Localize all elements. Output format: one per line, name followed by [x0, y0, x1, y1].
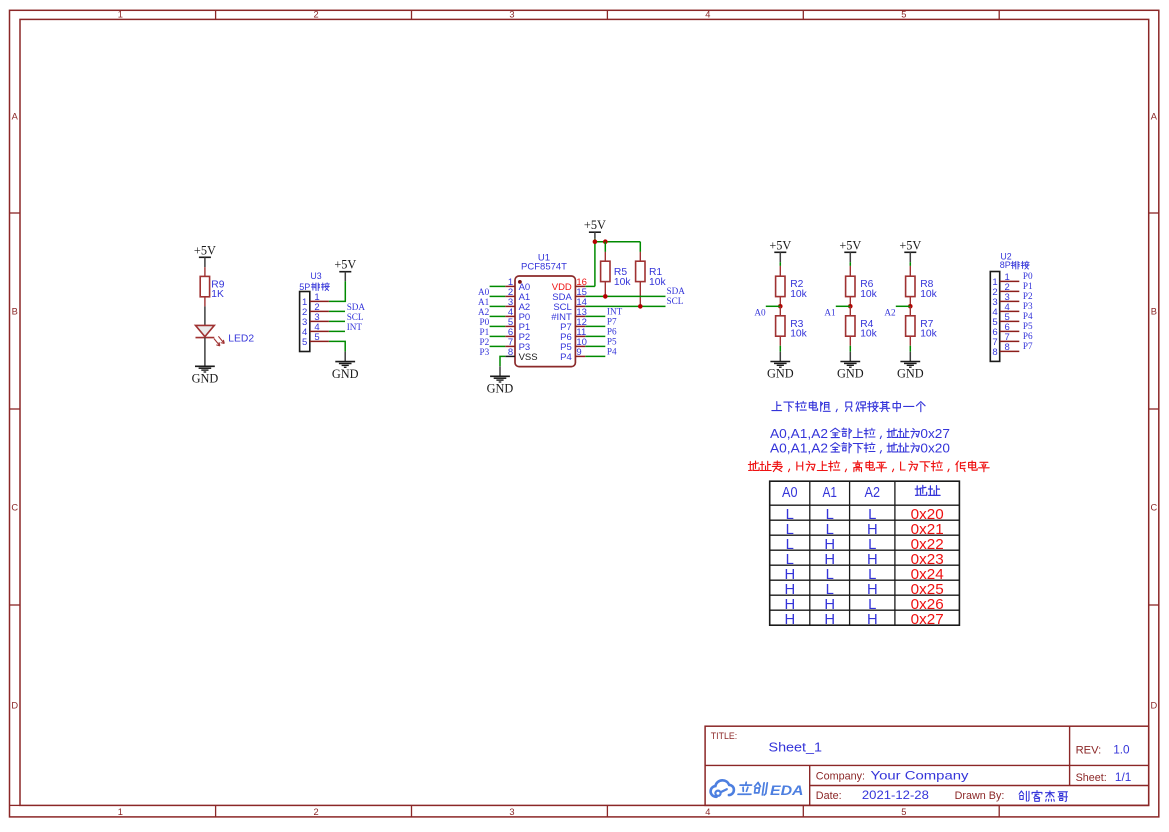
wire U1 pin 11: [585, 335, 605, 337]
wire node A0 to R3: [779, 306, 781, 316]
svg-text:P4: P4: [1023, 311, 1033, 321]
U1 pin 11 (P6): [560, 327, 586, 343]
svg-text:A2: A2: [884, 307, 896, 317]
svg-text:A0: A0: [754, 307, 766, 317]
wire node A1 stub: [836, 305, 851, 307]
wire +5V to R6: [849, 252, 851, 276]
svg-text:L: L: [868, 567, 876, 583]
svg-text:A1: A1: [478, 297, 490, 307]
svg-text:A0: A0: [782, 485, 798, 501]
svg-text:5: 5: [314, 332, 319, 343]
svg-text:3: 3: [509, 10, 514, 20]
ground (A1): [837, 362, 864, 381]
svg-text:8: 8: [508, 347, 513, 358]
svg-text:0x20: 0x20: [920, 441, 950, 455]
resistor R6: [846, 276, 878, 300]
svg-text:H: H: [795, 460, 804, 474]
U2 pin 3: [992, 292, 1019, 308]
svg-text:P2: P2: [479, 337, 489, 347]
svg-text:L: L: [786, 522, 794, 538]
svg-text:9: 9: [576, 347, 581, 358]
svg-text:L: L: [826, 567, 834, 583]
svg-text:H: H: [784, 612, 795, 628]
U1 pin 1 (A0): [505, 277, 530, 293]
connector U2 8P: [990, 252, 1011, 362]
svg-text:H: H: [824, 597, 835, 613]
U2 pin 8: [992, 342, 1019, 358]
wire node A2 to R7: [909, 306, 911, 316]
svg-text:2021-12-28: 2021-12-28: [862, 788, 929, 802]
svg-text:1K: 1K: [211, 289, 224, 300]
svg-text:1/1: 1/1: [1115, 770, 1131, 784]
wire U3 pin5 to GND: [329, 341, 345, 361]
wire R7 to GND: [909, 336, 911, 361]
U1 pin 3 (A2): [505, 297, 530, 313]
svg-text:H: H: [784, 597, 795, 613]
svg-text:P3: P3: [1023, 301, 1033, 311]
svg-text:+5V: +5V: [584, 218, 606, 232]
resistor R8: [906, 276, 938, 300]
wire +5V to R2: [779, 252, 781, 276]
svg-text:U3: U3: [310, 271, 321, 281]
wire R3 to GND: [779, 336, 781, 361]
svg-text:SDA: SDA: [667, 286, 686, 296]
resistor R3: [776, 316, 808, 340]
svg-text:4: 4: [705, 10, 710, 20]
op IC U1 refdes: [521, 253, 567, 273]
wire node A2 stub: [896, 305, 911, 307]
svg-text:10k: 10k: [860, 289, 877, 300]
wire U1 pin 5: [490, 325, 506, 327]
svg-text:LED2: LED2: [228, 334, 254, 345]
svg-text:0x25: 0x25: [911, 582, 944, 598]
svg-text:GND: GND: [332, 367, 359, 381]
svg-text:C: C: [11, 502, 18, 512]
svg-text:A: A: [1151, 112, 1158, 122]
resistor R2: [776, 276, 808, 300]
svg-text:L: L: [826, 582, 834, 598]
U1 pin 6 (P2): [505, 327, 530, 343]
svg-text:L: L: [786, 552, 794, 568]
wire U1 pin 2: [490, 295, 506, 297]
U3 pin 4: [302, 322, 329, 338]
svg-text:0x20: 0x20: [911, 507, 944, 523]
svg-text:P5: P5: [1023, 321, 1033, 331]
U2 refdes 8P排接: [1000, 260, 1029, 270]
ground (U3): [332, 362, 359, 381]
svg-text:H: H: [824, 612, 835, 628]
U2 pin 6: [992, 322, 1019, 338]
U1 pin 14 (SCL): [553, 297, 587, 313]
wire R6 to node A1: [849, 297, 851, 307]
svg-text:5: 5: [302, 337, 307, 348]
svg-text:SCL: SCL: [667, 296, 684, 306]
wire U3 SCL: [329, 320, 345, 322]
table row 0x20: [786, 507, 944, 523]
table row 0x21: [786, 522, 944, 538]
drawn by value 创客杰哥: [1019, 791, 1067, 802]
svg-text:A2: A2: [865, 485, 881, 501]
svg-text:0x26: 0x26: [911, 597, 944, 613]
svg-text:P6: P6: [607, 326, 617, 336]
svg-text:D: D: [1150, 701, 1157, 711]
junction +5V/R5: [603, 239, 608, 244]
svg-text:P1: P1: [479, 327, 489, 337]
power flag +5V net +5V (R9 branch): [194, 243, 216, 257]
wire VDD pin16: [585, 285, 595, 287]
svg-text:1: 1: [118, 807, 123, 817]
svg-text:H: H: [784, 567, 795, 583]
wire +5V to R8: [909, 252, 911, 276]
svg-text:Sheet:: Sheet:: [1076, 772, 1107, 784]
svg-text:0x22: 0x22: [911, 537, 944, 553]
junction +5V/rail: [593, 239, 598, 244]
svg-text:A2: A2: [478, 307, 490, 317]
svg-text:GND: GND: [192, 372, 219, 386]
svg-text:P7: P7: [607, 316, 617, 326]
U3 pin 1: [302, 292, 329, 308]
U1 pin 7 (P3): [505, 337, 530, 353]
junction A2: [908, 304, 913, 309]
note line 1 (blue): [772, 401, 925, 412]
svg-text:+5V: +5V: [769, 238, 791, 252]
junction SCL/R1: [638, 304, 643, 309]
svg-text:Drawn By:: Drawn By:: [955, 790, 1005, 802]
svg-text:+5V: +5V: [839, 238, 861, 252]
table row 0x25: [784, 582, 943, 598]
svg-text:B: B: [1151, 306, 1157, 316]
svg-text:4: 4: [705, 807, 710, 817]
wire LED2 to GND: [204, 338, 206, 367]
wire U1 pin 10: [585, 345, 605, 347]
wire +5V to R9: [204, 257, 206, 276]
junction SDA/R5: [603, 294, 608, 299]
resistor R4: [846, 316, 878, 340]
ground (A0): [767, 362, 794, 381]
wire U1 pin 6: [490, 335, 506, 337]
power flag +5V net +5V (U3): [334, 258, 356, 272]
svg-text:10k: 10k: [920, 289, 937, 300]
wire R8 to node A2: [909, 297, 911, 307]
svg-text:Date:: Date:: [816, 790, 842, 802]
U2 pin 4: [992, 302, 1019, 318]
table row 0x22: [786, 537, 944, 553]
resistor R7: [906, 316, 938, 340]
LED LED2: [196, 325, 255, 345]
U1 pin 12 (P7): [560, 317, 587, 333]
svg-text:0x27: 0x27: [920, 427, 950, 441]
U1 pin 16 (VDD): [552, 277, 587, 293]
wire U1 pin 4: [490, 315, 506, 317]
U1 pin 9 (P4): [560, 347, 585, 363]
svg-text:EDA: EDA: [770, 783, 804, 798]
wire +5V to R5: [604, 242, 606, 262]
wire R4 to GND: [849, 336, 851, 361]
row ticks left/right: [10, 213, 1159, 805]
wire R1 to SCL: [639, 282, 641, 307]
svg-text:A0,A1,A2: A0,A1,A2: [770, 441, 828, 455]
table header row: [782, 485, 940, 501]
svg-text:2: 2: [314, 10, 319, 20]
resistor R9: [200, 276, 225, 300]
U1 pin 13 (#INT): [551, 307, 587, 323]
U3 pin 5: [302, 332, 329, 348]
svg-text:A1: A1: [822, 485, 837, 501]
svg-text:10k: 10k: [920, 328, 937, 339]
svg-text:10k: 10k: [649, 277, 666, 288]
svg-text:GND: GND: [767, 367, 794, 381]
table row 0x27: [784, 612, 943, 628]
svg-text:10k: 10k: [790, 328, 807, 339]
svg-text:A: A: [12, 112, 19, 122]
connector U3 5P: [300, 271, 322, 352]
svg-text:Your Company: Your Company: [871, 768, 969, 782]
wire U1 VSS to GND: [500, 356, 505, 376]
svg-text:1: 1: [118, 10, 123, 20]
wire U1 pin 3: [490, 305, 506, 307]
U1 pin 15 (SDA): [552, 287, 587, 303]
column ticks top/bottom: [216, 10, 1000, 817]
svg-text:INT: INT: [347, 322, 363, 332]
wire U3 SDA: [329, 310, 345, 312]
svg-text:10k: 10k: [860, 328, 877, 339]
wire U1 pin 12: [585, 325, 605, 327]
svg-text:H: H: [867, 552, 878, 568]
wire node A0 stub: [766, 305, 781, 307]
U2 pin 5: [992, 312, 1019, 328]
svg-text:Sheet_1: Sheet_1: [769, 739, 823, 754]
wire node A1 to R4: [849, 306, 851, 316]
svg-text:H: H: [867, 612, 878, 628]
svg-text:8: 8: [1005, 342, 1010, 353]
U1 pin 4 (P0): [505, 307, 530, 323]
svg-text:P0: P0: [479, 317, 489, 327]
svg-text:5: 5: [901, 807, 906, 817]
ground (LED branch): [192, 366, 219, 385]
table row 0x26: [784, 597, 943, 613]
svg-text:L: L: [786, 537, 794, 553]
wire U1 pin 1: [490, 285, 506, 287]
wire R2 to node A0: [779, 297, 781, 307]
svg-text:GND: GND: [487, 382, 514, 396]
wire +5V to R1: [639, 242, 641, 262]
resistor R1: [636, 261, 667, 288]
svg-text:0x21: 0x21: [911, 522, 944, 538]
svg-text:H: H: [824, 537, 835, 553]
svg-text:5P: 5P: [299, 282, 310, 292]
svg-text:P7: P7: [1023, 341, 1033, 351]
svg-text:1.0: 1.0: [1113, 743, 1130, 757]
IC U1 PCF8574T body: [515, 276, 575, 367]
svg-text:3: 3: [509, 807, 514, 817]
U1 pin 10 (P5): [560, 337, 587, 353]
power flag +5V net +5V (U1 rail): [584, 218, 606, 232]
svg-text:H: H: [867, 582, 878, 598]
svg-text:P6: P6: [1023, 331, 1033, 341]
wire U1 pin 7: [490, 345, 506, 347]
svg-text:P3: P3: [479, 347, 489, 357]
power flag +5V net +5V (A0): [769, 238, 791, 252]
svg-text:L: L: [786, 507, 794, 523]
U2 pin 7: [992, 332, 1019, 348]
svg-text:L: L: [826, 522, 834, 538]
wire net SCL: [585, 305, 665, 307]
svg-text:H: H: [867, 522, 878, 538]
svg-text:L: L: [826, 507, 834, 523]
power flag +5V net +5V (A1): [839, 238, 861, 252]
U1 pin 8 (VSS): [505, 347, 537, 363]
svg-text:A0: A0: [478, 287, 490, 297]
wire U1 pin 9: [585, 355, 605, 357]
logo text 立创EDA: [738, 782, 804, 798]
U2 pin 2: [992, 282, 1019, 298]
wire U3 pin1 to +5V: [329, 272, 345, 302]
ground (A2): [897, 362, 924, 381]
svg-text:0x27: 0x27: [911, 612, 944, 628]
svg-text:H: H: [824, 552, 835, 568]
svg-text:SDA: SDA: [347, 302, 366, 312]
resistor R5: [601, 261, 632, 288]
wire U1 pin 13: [585, 315, 605, 317]
power flag +5V net +5V (A2): [899, 238, 921, 252]
svg-text:D: D: [11, 701, 18, 711]
junction A1: [848, 304, 853, 309]
svg-text:2: 2: [314, 807, 319, 817]
svg-text:5: 5: [901, 10, 906, 20]
wire U3 INT: [329, 330, 345, 332]
svg-text:0x24: 0x24: [911, 567, 944, 583]
row labels A-D: [11, 112, 1157, 711]
EasyEDA logo cloud: [711, 780, 734, 797]
svg-text:P5: P5: [607, 336, 617, 346]
svg-text:L: L: [868, 597, 876, 613]
svg-text:Company:: Company:: [816, 770, 865, 782]
table row 0x24: [784, 567, 943, 583]
ground (U1): [487, 376, 514, 395]
svg-text:P2: P2: [1023, 291, 1033, 301]
svg-text:+5V: +5V: [194, 243, 216, 257]
wire R9 to LED2: [204, 297, 206, 326]
svg-text:+5V: +5V: [899, 238, 921, 252]
note line 4 (red): [748, 460, 989, 474]
wire +5V rail vertical to VDD: [594, 239, 596, 287]
svg-text:+5V: +5V: [334, 258, 356, 272]
column labels 1-5: [118, 10, 907, 818]
svg-text:P0: P0: [1023, 271, 1033, 281]
wire R5 to SDA: [604, 282, 606, 297]
svg-text:B: B: [12, 306, 18, 316]
svg-text:H: H: [784, 582, 795, 598]
svg-text:TITLE:: TITLE:: [711, 731, 737, 741]
wire net SDA: [585, 295, 665, 297]
svg-text:GND: GND: [837, 367, 864, 381]
svg-text:PCF8574T: PCF8574T: [521, 261, 567, 272]
svg-text:A0,A1,A2: A0,A1,A2: [770, 427, 828, 441]
junction A0: [778, 304, 783, 309]
svg-text:L: L: [899, 460, 906, 474]
svg-text:10k: 10k: [614, 277, 631, 288]
wire +5V stem: [594, 232, 596, 239]
svg-text:REV:: REV:: [1076, 745, 1102, 757]
svg-text:L: L: [868, 537, 876, 553]
svg-text:GND: GND: [897, 367, 924, 381]
U3 pin 3: [302, 312, 329, 328]
svg-text:P4: P4: [560, 352, 572, 363]
table row 0x23: [786, 552, 944, 568]
svg-text:10k: 10k: [790, 289, 807, 300]
svg-text:P4: P4: [607, 346, 617, 356]
svg-text:L: L: [868, 507, 876, 523]
svg-text:INT: INT: [607, 306, 623, 316]
svg-text:A1: A1: [824, 307, 836, 317]
svg-text:C: C: [1150, 502, 1157, 512]
address table grid: [770, 481, 960, 625]
U1 pin 2 (A1): [505, 287, 530, 303]
note line 2 (blue): [770, 427, 950, 441]
svg-text:8P: 8P: [1000, 260, 1011, 270]
svg-text:P1: P1: [1023, 281, 1033, 291]
svg-text:0x23: 0x23: [911, 552, 944, 568]
svg-text:SCL: SCL: [347, 312, 364, 322]
U3 refdes 5P排接: [299, 282, 329, 292]
title block grid: [705, 726, 1149, 805]
U2 pin 1: [992, 272, 1019, 288]
svg-text:8: 8: [992, 347, 997, 358]
U1 pin 5 (P1): [505, 317, 530, 333]
U3 pin 2: [302, 302, 329, 318]
wire +5V rail horizontal: [595, 241, 640, 243]
svg-text:VSS: VSS: [519, 352, 538, 363]
note line 3 (blue): [770, 441, 950, 455]
